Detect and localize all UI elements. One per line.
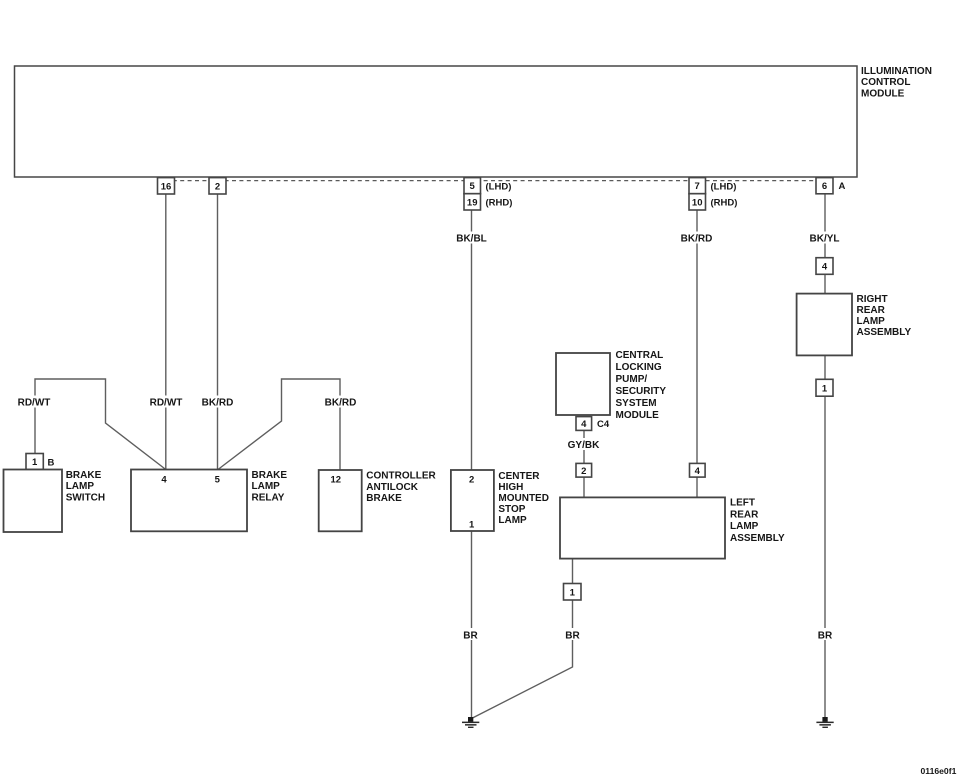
brake lamp switch pin 1 box bbox=[26, 454, 43, 470]
svg-text:10: 10 bbox=[692, 197, 703, 208]
wire label BR (stop lamp ground wire) bbox=[459, 628, 483, 641]
svg-text:BRAKE: BRAKE bbox=[366, 493, 402, 504]
svg-text:2: 2 bbox=[469, 474, 474, 485]
svg-text:MODULE: MODULE bbox=[616, 410, 660, 421]
label (LHD)/(RHD) for pins 5/19 bbox=[486, 181, 513, 208]
pin 16 bbox=[158, 178, 175, 194]
brake lamp switch label bbox=[66, 470, 105, 503]
right rear lamp assembly label bbox=[857, 294, 912, 338]
svg-text:BK/RD: BK/RD bbox=[325, 397, 357, 408]
wire: controller antilock brake jog to relay pin 5 bbox=[218, 379, 340, 470]
module U1 label bbox=[861, 66, 932, 100]
svg-text:CONTROL: CONTROL bbox=[861, 77, 910, 88]
svg-text:ILLUMINATION: ILLUMINATION bbox=[861, 66, 932, 77]
svg-text:1: 1 bbox=[822, 383, 828, 394]
wire: pin 4 box to left rear lamp assembly bbox=[696, 477, 698, 497]
connector pin 1 (left rear lamp) bbox=[564, 584, 582, 601]
svg-text:C4: C4 bbox=[597, 419, 610, 430]
wire label BR (left rear lamp ground wire) bbox=[561, 628, 585, 641]
svg-text:12: 12 bbox=[331, 474, 342, 485]
svg-text:SYSTEM: SYSTEM bbox=[616, 398, 657, 409]
svg-text:LAMP: LAMP bbox=[857, 316, 886, 327]
svg-text:CENTRAL: CENTRAL bbox=[616, 350, 664, 361]
pin 2 bbox=[209, 178, 226, 194]
wire label BK/RD (pin2 wire) bbox=[199, 396, 236, 409]
connector pin 4 C4 (central locking) bbox=[576, 417, 592, 431]
connector pin 4 (left rear lamp) bbox=[690, 463, 706, 477]
svg-text:HIGH: HIGH bbox=[498, 482, 523, 493]
svg-text:1: 1 bbox=[469, 519, 475, 530]
brake lamp switch box bbox=[4, 470, 63, 533]
wire: brake lamp switch jog to relay pin 4 bbox=[35, 379, 166, 470]
wire label BK/YL bbox=[806, 232, 843, 245]
svg-text:6: 6 bbox=[822, 181, 827, 192]
wire: stop lamp pin 1 to ground bbox=[471, 531, 473, 718]
pin 5 (LHD) bbox=[464, 178, 481, 194]
center high mounted stop lamp label bbox=[498, 471, 549, 526]
wire: right rear lamp assembly to pin 1 box bbox=[824, 355, 826, 379]
svg-text:BK/YL: BK/YL bbox=[810, 234, 840, 245]
ground G2 (right rear lamp) bbox=[816, 717, 833, 728]
svg-text:RD/WT: RD/WT bbox=[150, 397, 183, 408]
svg-text:7: 7 bbox=[695, 181, 700, 192]
svg-text:MOUNTED: MOUNTED bbox=[498, 493, 549, 504]
svg-text:5: 5 bbox=[215, 474, 221, 485]
central locking module label bbox=[616, 350, 667, 421]
svg-text:BR: BR bbox=[565, 630, 580, 641]
brake lamp relay label bbox=[252, 470, 288, 503]
wire: left rear lamp assembly to pin 1 box bbox=[572, 559, 574, 584]
connector pin 4 (right rear lamp) bbox=[816, 258, 833, 275]
svg-text:STOP: STOP bbox=[498, 504, 525, 515]
svg-text:BRAKE: BRAKE bbox=[66, 470, 102, 481]
left rear lamp assembly label bbox=[730, 498, 785, 544]
wire: module pin 6 to right rear lamp pin 4 bbox=[824, 194, 826, 258]
svg-text:(LHD): (LHD) bbox=[711, 181, 737, 192]
svg-text:19: 19 bbox=[467, 197, 478, 208]
wire: right rear lamp pin 1 to ground bbox=[824, 396, 826, 718]
pin 7 (LHD) bbox=[689, 178, 706, 194]
svg-text:(RHD): (RHD) bbox=[486, 197, 513, 208]
svg-text:LAMP: LAMP bbox=[498, 515, 527, 526]
svg-text:BK/RD: BK/RD bbox=[202, 397, 234, 408]
svg-text:RD/WT: RD/WT bbox=[18, 397, 51, 408]
svg-text:LOCKING: LOCKING bbox=[616, 362, 662, 373]
svg-text:SWITCH: SWITCH bbox=[66, 492, 105, 503]
brake lamp relay box bbox=[131, 470, 247, 532]
svg-text:MODULE: MODULE bbox=[861, 89, 905, 100]
svg-text:CENTER: CENTER bbox=[498, 471, 540, 482]
svg-text:RIGHT: RIGHT bbox=[857, 294, 888, 305]
svg-text:2: 2 bbox=[215, 181, 220, 192]
svg-text:(LHD): (LHD) bbox=[486, 181, 512, 192]
svg-text:SECURITY: SECURITY bbox=[616, 386, 667, 397]
module U1: illumination control module box bbox=[15, 66, 858, 177]
svg-text:LAMP: LAMP bbox=[66, 481, 95, 492]
wire label BK/RD (left rear lamp wire) bbox=[678, 232, 715, 245]
svg-text:ASSEMBLY: ASSEMBLY bbox=[730, 533, 785, 544]
svg-text:BR: BR bbox=[818, 630, 833, 641]
svg-text:1: 1 bbox=[32, 457, 38, 468]
pin 19 (RHD) bbox=[464, 194, 481, 210]
wire: left rear lamp pin 1 to ground (with diagonal) bbox=[472, 600, 573, 719]
pin 10 (RHD) bbox=[689, 194, 706, 210]
center high mounted stop lamp box bbox=[451, 470, 494, 531]
svg-text:(RHD): (RHD) bbox=[711, 197, 738, 208]
svg-text:REAR: REAR bbox=[857, 305, 886, 316]
dashed connector edge of module bbox=[158, 180, 833, 182]
svg-text:REAR: REAR bbox=[730, 510, 759, 521]
svg-text:ANTILOCK: ANTILOCK bbox=[366, 482, 418, 493]
pin 6 bbox=[816, 178, 833, 194]
connector pin 2 (left rear lamp) bbox=[576, 463, 592, 477]
wire label BR (right ground wire) bbox=[813, 628, 837, 641]
svg-text:4: 4 bbox=[161, 474, 167, 485]
svg-text:LEFT: LEFT bbox=[730, 498, 755, 509]
wire: module pin 2 to relay pin 5 bbox=[217, 194, 219, 470]
svg-text:ASSEMBLY: ASSEMBLY bbox=[857, 327, 912, 338]
svg-text:CONTROLLER: CONTROLLER bbox=[366, 471, 436, 482]
wire label BK/RD (controller wire) bbox=[322, 396, 359, 409]
svg-text:BK/RD: BK/RD bbox=[681, 234, 713, 245]
wire label RD/WT (pin16 wire) bbox=[147, 396, 185, 409]
wire: pin 2 box to left rear lamp assembly bbox=[583, 477, 585, 497]
wire: module pin 10 to left rear lamp pin 4 bbox=[696, 210, 698, 463]
wire: pin 4 box to right rear lamp assembly bbox=[824, 274, 826, 293]
svg-text:BK/BL: BK/BL bbox=[456, 234, 487, 245]
svg-text:4: 4 bbox=[581, 419, 587, 430]
svg-text:RELAY: RELAY bbox=[252, 492, 285, 503]
controller antilock brake label bbox=[366, 471, 436, 504]
wire label GY/BK bbox=[565, 438, 603, 451]
svg-text:B: B bbox=[48, 457, 55, 468]
label (LHD)/(RHD) for pins 7/10 bbox=[711, 181, 738, 208]
ground G1 (center/left rear lamp) bbox=[462, 717, 479, 728]
controller antilock brake box bbox=[319, 470, 362, 531]
wire: module pin 16 to relay pin 4 bbox=[165, 194, 167, 470]
svg-text:GY/BK: GY/BK bbox=[568, 440, 600, 451]
wire: central locking module pin 4 to left rear lamp pin 2 bbox=[583, 430, 585, 463]
svg-text:PUMP/: PUMP/ bbox=[616, 374, 648, 385]
svg-text:1: 1 bbox=[570, 587, 576, 598]
svg-text:4: 4 bbox=[822, 262, 828, 273]
svg-text:0116e0f1: 0116e0f1 bbox=[921, 766, 957, 776]
svg-text:2: 2 bbox=[581, 466, 586, 477]
svg-text:LAMP: LAMP bbox=[252, 481, 281, 492]
svg-text:4: 4 bbox=[695, 466, 701, 477]
svg-text:BR: BR bbox=[463, 630, 478, 641]
svg-text:16: 16 bbox=[161, 181, 172, 192]
wire: module pin 19 to center high mounted stop lamp bbox=[471, 210, 473, 470]
connector pin 1 (right rear lamp) bbox=[816, 379, 833, 396]
svg-text:A: A bbox=[839, 181, 846, 192]
svg-text:BRAKE: BRAKE bbox=[252, 470, 288, 481]
svg-text:5: 5 bbox=[470, 181, 476, 192]
left rear lamp assembly box bbox=[560, 497, 725, 558]
wire label RD/WT (switch wire) bbox=[15, 396, 53, 409]
wire label BK/BL bbox=[453, 232, 490, 245]
right rear lamp assembly box bbox=[797, 294, 852, 356]
svg-text:LAMP: LAMP bbox=[730, 521, 759, 532]
central locking pump/security system module box bbox=[556, 353, 610, 415]
